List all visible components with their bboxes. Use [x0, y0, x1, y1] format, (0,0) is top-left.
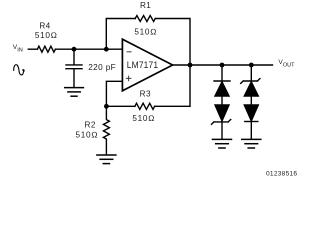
- zener D3 up-pointing: [241, 79, 260, 105]
- node junction diode chain 1: [220, 63, 225, 68]
- svg-text:R4: R4: [39, 21, 50, 30]
- svg-text:R1: R1: [140, 1, 151, 10]
- svg-text:IN: IN: [17, 47, 22, 53]
- svg-text:R2: R2: [85, 121, 96, 130]
- ground under R2: [97, 155, 116, 164]
- svg-text:LM7171: LM7171: [127, 59, 158, 70]
- wire to diode D1: [221, 65, 223, 81]
- wire op-amp output: [173, 64, 273, 66]
- wire R3 to output node: [155, 65, 190, 106]
- svg-text:R3: R3: [140, 90, 151, 99]
- node junction cap: [72, 47, 77, 52]
- node junction plus input: [104, 104, 109, 109]
- wire plus node to R3: [106, 105, 134, 107]
- svg-text:510Ω: 510Ω: [76, 131, 99, 140]
- diode D4 down-pointing: [244, 105, 258, 139]
- resistor R2 vertical: [103, 106, 109, 155]
- capacitor C1 220pF: [66, 49, 82, 87]
- ground under capacitor: [65, 88, 84, 97]
- resistor R1: [135, 16, 155, 22]
- svg-text:510Ω: 510Ω: [134, 28, 157, 37]
- sine source symbol: [14, 65, 25, 75]
- op-amp plus sign: [126, 76, 131, 81]
- svg-text:220 pF: 220 pF: [88, 63, 116, 72]
- svg-text:01238516: 01238516: [266, 171, 297, 178]
- wire plus input elbow: [106, 81, 122, 106]
- svg-text:510Ω: 510Ω: [132, 114, 155, 123]
- node VOUT label: [278, 59, 295, 68]
- wire feedback up-left: [106, 19, 135, 50]
- wire R4 to op-amp minus input: [55, 48, 122, 50]
- op-amp minus sign: [127, 51, 131, 53]
- wire VIN to R4: [28, 48, 37, 50]
- node junction diode chain 2: [249, 63, 254, 68]
- wire feedback down-right: [155, 19, 190, 66]
- wire to zener D3: [250, 65, 252, 81]
- svg-text:510Ω: 510Ω: [35, 31, 58, 40]
- resistor R4: [37, 46, 55, 52]
- ground under diode chain 1: [213, 139, 232, 148]
- node junction feedback tap: [104, 47, 109, 52]
- node VIN label: [13, 44, 23, 53]
- op-amp U1 LM7171: [122, 39, 172, 91]
- ground under diode chain 2: [242, 139, 261, 148]
- zener D2 down-pointing: [212, 105, 231, 139]
- node junction output feedback: [188, 63, 193, 68]
- svg-text:OUT: OUT: [283, 62, 295, 68]
- resistor R3: [135, 103, 155, 109]
- diode D1 up-pointing: [214, 81, 230, 105]
